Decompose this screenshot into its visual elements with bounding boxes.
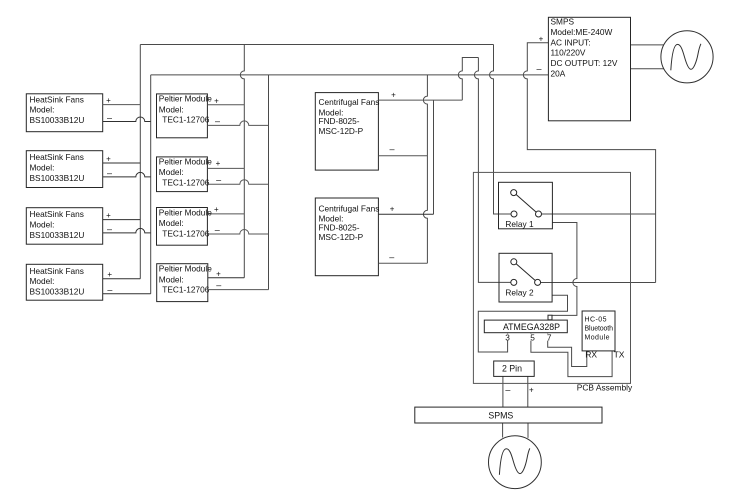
svg-text:TX: TX <box>614 350 625 360</box>
wire SPMS to AC source left <box>502 423 504 438</box>
svg-text:MSC-12D-P: MSC-12D-P <box>319 126 364 136</box>
peltier module 3 TEC1-12706 <box>157 205 269 245</box>
wire vertical A2 (peltier + rail, hops V- bus) <box>240 45 244 278</box>
wire V- second bus <box>151 74 549 76</box>
wire 2pin minus to SPMS <box>502 376 504 407</box>
svg-text:–: – <box>389 252 394 262</box>
svg-text:2 Pin: 2 Pin <box>502 364 522 374</box>
svg-text:–: – <box>536 64 541 74</box>
wire relay1 output to right rail <box>542 213 656 215</box>
ATMEGA pin 3 label <box>505 332 511 342</box>
wire vertical B (heatsink - rail) <box>150 75 152 294</box>
wire left rail to relay2 (hops V- bus) <box>474 58 510 283</box>
svg-text:–: – <box>107 224 112 234</box>
svg-text:Peltier Module: Peltier Module <box>159 207 212 217</box>
ATMEGA pin 9 square pad <box>548 315 552 320</box>
heatsink fan 3 HeatSink Fans BS10033B12U <box>26 208 150 245</box>
svg-text:FND-8025-: FND-8025- <box>319 116 360 126</box>
svg-text:Peltier Module: Peltier Module <box>159 94 212 104</box>
wire ATMEGA pin5 to HC-05 TX <box>531 333 612 377</box>
svg-text:3: 3 <box>505 332 510 342</box>
svg-text:TEC1-12706: TEC1-12706 <box>162 115 209 125</box>
wire relay1 aux to ATMEGA pin9 (hops relay2 output) <box>552 223 577 316</box>
heatsink fan 2 HeatSink Fans BS10033B12U <box>26 151 150 188</box>
svg-text:+: + <box>529 385 534 394</box>
svg-text:Model:ME-240W: Model:ME-240W <box>551 27 613 37</box>
HC-05 bluetooth module <box>582 311 615 351</box>
svg-text:Model:: Model: <box>159 274 184 284</box>
svg-text:–: – <box>389 144 394 154</box>
wire V+ top bus <box>140 44 493 46</box>
svg-text:–: – <box>216 280 221 290</box>
svg-text:Model:: Model: <box>159 218 184 228</box>
relay 1 <box>499 182 553 229</box>
peltier module 2 TEC1-12706 <box>157 156 269 191</box>
svg-text:+: + <box>214 205 219 214</box>
SPMS power strip <box>415 407 602 423</box>
svg-text:+: + <box>107 270 112 279</box>
wire relay2 aux to pin3 <box>478 295 567 352</box>
svg-text:HC-05: HC-05 <box>585 317 607 324</box>
svg-text:TEC1-12706: TEC1-12706 <box>162 178 209 188</box>
wire vertical A3 (fan - rail, hops fan + wires) <box>423 75 427 263</box>
svg-text:Peltier Module: Peltier Module <box>159 156 212 166</box>
svg-text:Centrifugal Fans: Centrifugal Fans <box>319 97 380 107</box>
microcontroller ATMEGA328P <box>484 320 567 333</box>
svg-text:AC INPUT:: AC INPUT: <box>551 37 591 47</box>
svg-text:+: + <box>106 96 111 105</box>
svg-text:+: + <box>216 269 221 278</box>
wire SPMS to AC source right <box>527 423 529 438</box>
svg-text:Model:: Model: <box>30 220 55 230</box>
svg-text:HeatSink Fans: HeatSink Fans <box>30 152 84 162</box>
svg-text:Model:: Model: <box>159 167 184 177</box>
svg-text:–: – <box>107 285 112 295</box>
svg-text:–: – <box>107 168 112 178</box>
wire SMPS plus output (hops V- bus) <box>523 43 655 283</box>
svg-text:MSC-12D-P: MSC-12D-P <box>319 232 364 242</box>
wire SMPS to AC line bottom <box>631 68 665 70</box>
svg-text:BS10033B12U: BS10033B12U <box>30 115 85 125</box>
svg-text:7: 7 <box>547 332 552 342</box>
svg-text:Peltier Module: Peltier Module <box>159 264 212 274</box>
wire vertical B2 (peltier - rail) <box>268 75 270 290</box>
centrifugal fan 1 FND-8025-MSC-12D-P <box>315 91 462 170</box>
centrifugal fan 2 FND-8025-MSC-12D-P <box>315 198 433 276</box>
svg-text:+: + <box>539 34 544 43</box>
svg-text:20A: 20A <box>551 69 566 79</box>
wire vertical A (heatsink + rail) <box>139 45 141 279</box>
peltier module 1 TEC1-12706 <box>157 94 269 138</box>
ATMEGA pin 5 label <box>530 332 536 342</box>
svg-text:Bluetooth: Bluetooth <box>585 325 614 332</box>
svg-text:+: + <box>391 91 396 100</box>
svg-text:–: – <box>107 112 112 122</box>
svg-text:Relay 1: Relay 1 <box>505 219 534 229</box>
svg-text:FND-8025-: FND-8025- <box>319 223 360 233</box>
svg-text:–: – <box>215 224 220 234</box>
peltier module 4 TEC1-12706 <box>157 264 269 302</box>
wire SMPS to AC line top <box>631 44 665 46</box>
wire 2pin plus to SPMS <box>527 376 529 407</box>
svg-text:Module: Module <box>585 334 610 341</box>
svg-text:–: – <box>215 116 220 126</box>
svg-text:Model:: Model: <box>30 163 55 173</box>
svg-text:Relay 2: Relay 2 <box>505 287 534 297</box>
AC source bottom (mains) <box>489 436 542 489</box>
svg-text:ATMEGA328P: ATMEGA328P <box>503 322 560 332</box>
svg-text:110/220V: 110/220V <box>551 48 586 58</box>
svg-text:SMPS: SMPS <box>551 17 575 27</box>
svg-text:+: + <box>216 159 221 168</box>
svg-text:BS10033B12U: BS10033B12U <box>30 173 85 183</box>
relay 2 <box>499 253 552 302</box>
svg-text:5: 5 <box>530 332 535 342</box>
heatsink fan 1 HeatSink Fans BS10033B12U <box>26 94 150 132</box>
svg-text:HeatSink Fans: HeatSink Fans <box>30 266 84 276</box>
svg-text:TEC1-12706: TEC1-12706 <box>162 229 209 239</box>
SMPS power supply ME-240W <box>536 17 630 121</box>
wire relay1 coil feed from V+ bus (hops V- bus) <box>490 45 512 215</box>
svg-text:Centrifugal Fans: Centrifugal Fans <box>319 203 380 213</box>
svg-text:HeatSink Fans: HeatSink Fans <box>30 94 84 104</box>
svg-text:TEC1-12706: TEC1-12706 <box>162 285 209 295</box>
wire ATMEGA pin7 to HC-05 RX <box>548 333 587 367</box>
svg-text:+: + <box>390 204 395 213</box>
svg-text:BS10033B12U: BS10033B12U <box>30 286 85 296</box>
heatsink fan 4 HeatSink Fans BS10033B12U <box>26 264 150 300</box>
PCB assembly outline <box>473 172 633 392</box>
svg-text:PCB Assembly: PCB Assembly <box>577 383 633 393</box>
svg-text:SPMS: SPMS <box>488 411 513 421</box>
svg-text:DC OUTPUT: 12V: DC OUTPUT: 12V <box>551 58 618 68</box>
svg-text:–: – <box>505 384 510 394</box>
svg-text:Model:: Model: <box>159 104 184 114</box>
svg-text:+: + <box>106 211 111 220</box>
svg-text:BS10033B12U: BS10033B12U <box>30 230 85 240</box>
svg-text:+: + <box>214 97 219 106</box>
wire vertical B3 (fan + link) <box>433 100 435 214</box>
ATMEGA pin 7 label <box>546 332 552 342</box>
2 pin connector <box>494 361 535 376</box>
svg-text:HeatSink Fans: HeatSink Fans <box>30 209 84 219</box>
svg-text:Model:: Model: <box>30 276 55 286</box>
svg-text:RX: RX <box>585 350 597 360</box>
svg-text:–: – <box>216 175 221 185</box>
wire relay2 output from right rail <box>541 282 656 284</box>
wire fan1 plus to staple riser (hops V- bus) <box>458 58 478 101</box>
svg-text:+: + <box>106 155 111 164</box>
svg-text:Model:: Model: <box>30 105 55 115</box>
AC source top (mains) <box>661 31 713 83</box>
